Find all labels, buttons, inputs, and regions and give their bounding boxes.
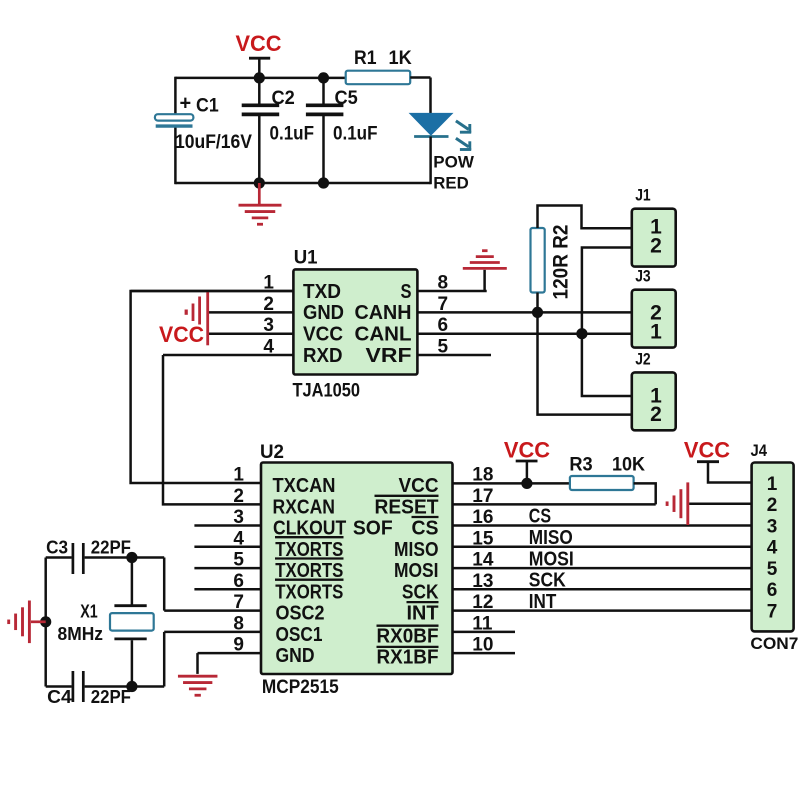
svg-text:MISO: MISO <box>529 527 573 549</box>
svg-text:2: 2 <box>263 294 274 315</box>
svg-text:J4: J4 <box>751 442 768 460</box>
svg-text:5: 5 <box>438 337 449 358</box>
svg-text:1: 1 <box>767 474 778 495</box>
svg-text:4: 4 <box>767 538 778 559</box>
svg-text:R1: R1 <box>354 48 377 69</box>
svg-text:RX1BF: RX1BF <box>377 647 439 669</box>
svg-text:SCK: SCK <box>402 581 439 603</box>
svg-text:TXCAN: TXCAN <box>273 475 336 497</box>
svg-text:OSC2: OSC2 <box>276 603 325 625</box>
svg-text:13: 13 <box>472 571 493 592</box>
svg-text:OSC1: OSC1 <box>276 624 323 646</box>
svg-text:U1: U1 <box>294 248 318 269</box>
svg-text:0.1uF: 0.1uF <box>270 123 315 144</box>
svg-text:2: 2 <box>650 403 662 426</box>
svg-text:TXORTS: TXORTS <box>275 581 343 603</box>
svg-text:INT: INT <box>407 603 439 625</box>
svg-text:S: S <box>401 281 412 303</box>
svg-text:SCK: SCK <box>529 570 566 592</box>
svg-text:TJA1050: TJA1050 <box>293 381 361 402</box>
svg-text:3: 3 <box>767 516 778 537</box>
svg-text:120R R2: 120R R2 <box>550 225 573 300</box>
svg-text:12: 12 <box>472 592 493 613</box>
svg-text:6: 6 <box>767 580 778 601</box>
svg-text:VCC: VCC <box>303 324 343 346</box>
svg-text:2: 2 <box>650 234 662 257</box>
svg-text:22PF: 22PF <box>91 687 131 707</box>
svg-text:1: 1 <box>233 465 244 486</box>
svg-text:CANL: CANL <box>355 324 412 346</box>
svg-text:CANH: CANH <box>355 302 412 324</box>
svg-text:16: 16 <box>472 507 493 528</box>
svg-text:RX0BF: RX0BF <box>377 625 439 647</box>
svg-text:10uF/16V: 10uF/16V <box>175 132 252 153</box>
svg-text:2: 2 <box>233 486 244 507</box>
svg-text:RED: RED <box>433 173 469 192</box>
svg-text:MCP2515: MCP2515 <box>262 677 339 698</box>
svg-text:X1: X1 <box>80 601 98 621</box>
svg-text:7: 7 <box>233 592 244 613</box>
svg-text:VRF: VRF <box>366 345 412 367</box>
svg-text:SOF: SOF <box>353 518 393 540</box>
svg-text:4: 4 <box>263 337 274 358</box>
svg-text:VCC: VCC <box>504 438 550 463</box>
svg-text:15: 15 <box>472 528 494 549</box>
svg-text:1: 1 <box>650 320 662 343</box>
svg-text:8MHz: 8MHz <box>58 624 104 644</box>
svg-text:7: 7 <box>767 601 778 622</box>
svg-text:C5: C5 <box>335 88 359 109</box>
svg-text:5: 5 <box>233 550 244 571</box>
svg-text:1K: 1K <box>389 48 412 69</box>
svg-text:TXD: TXD <box>303 281 341 303</box>
svg-text:6: 6 <box>233 571 244 592</box>
svg-text:8: 8 <box>233 613 244 634</box>
svg-text:2: 2 <box>767 495 778 516</box>
svg-text:11: 11 <box>472 613 493 634</box>
svg-text:GND: GND <box>303 302 344 324</box>
svg-text:INT: INT <box>529 591 557 613</box>
svg-text:18: 18 <box>472 465 493 486</box>
svg-text:RXCAN: RXCAN <box>273 496 336 518</box>
svg-text:5: 5 <box>767 559 778 580</box>
svg-text:C2: C2 <box>272 88 295 109</box>
svg-text:C3: C3 <box>46 537 68 557</box>
svg-text:VCC: VCC <box>159 322 204 347</box>
svg-text:MOSI: MOSI <box>394 560 439 582</box>
svg-text:4: 4 <box>233 528 244 549</box>
svg-text:RXD: RXD <box>303 345 343 367</box>
svg-text:C4: C4 <box>47 687 71 707</box>
svg-text:22PF: 22PF <box>91 537 131 557</box>
svg-text:VCC: VCC <box>399 475 439 497</box>
svg-text:6: 6 <box>438 315 449 336</box>
svg-text:17: 17 <box>472 486 493 507</box>
svg-text:MISO: MISO <box>394 539 439 561</box>
svg-text:CS: CS <box>529 506 551 528</box>
svg-text:3: 3 <box>263 315 274 336</box>
svg-text:MOSI: MOSI <box>529 548 574 570</box>
svg-text:RESET: RESET <box>375 496 439 518</box>
svg-text:+: + <box>180 93 192 115</box>
svg-text:VCC: VCC <box>236 31 282 56</box>
svg-text:R3: R3 <box>569 455 592 476</box>
svg-text:J3: J3 <box>635 268 651 286</box>
svg-text:CS: CS <box>412 518 439 540</box>
svg-text:7: 7 <box>438 294 449 315</box>
svg-text:10: 10 <box>472 635 493 656</box>
svg-text:VCC: VCC <box>684 438 730 463</box>
svg-text:C1: C1 <box>196 95 219 116</box>
svg-text:10K: 10K <box>612 455 645 476</box>
svg-text:0.1uF: 0.1uF <box>333 123 378 144</box>
svg-text:9: 9 <box>233 635 244 656</box>
svg-text:CON7: CON7 <box>750 634 798 653</box>
svg-text:3: 3 <box>233 507 244 528</box>
svg-text:J1: J1 <box>635 187 651 205</box>
svg-text:POW: POW <box>433 153 475 172</box>
svg-text:14: 14 <box>472 550 494 571</box>
svg-text:J2: J2 <box>635 350 651 368</box>
svg-text:GND: GND <box>276 645 315 667</box>
svg-text:U2: U2 <box>260 442 284 463</box>
svg-text:8: 8 <box>438 273 449 294</box>
